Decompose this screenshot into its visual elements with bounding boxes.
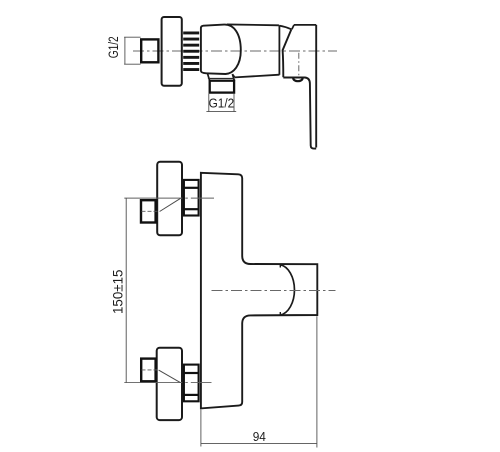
front view top wall nipple square [141, 200, 156, 222]
side view wall escutcheon flange [162, 17, 182, 86]
front view bottom eccentric diagonal [159, 370, 181, 383]
side view handle back edge (cap to lever tip) [315, 25, 317, 148]
front view top hex nut facet divider lower [183, 208, 198, 210]
side view outlet neck left side [208, 74, 210, 81]
side view G1/2 dimension witness line bottom [124, 63, 141, 65]
side view handle front slant edge [283, 29, 292, 77]
side view main centerline [133, 50, 337, 52]
side view G1/2 dimension line [124, 37, 126, 64]
front view 94 dimension left extension line [200, 410, 202, 447]
front view 150±15 dimension line [125, 198, 127, 382]
side view outlet G1/2 witness line right [233, 94, 235, 112]
front view body horizontal centerline [212, 289, 336, 291]
front view bottom inlet centerline [124, 382, 211, 384]
side view thread ladder on body inlet [183, 32, 199, 72]
side view handle vertical centerline [298, 53, 300, 78]
front view bottom wall nipple square [141, 359, 155, 382]
side view outlet G1/2 witness line left [208, 94, 210, 112]
front view bottom escutcheon flange [157, 348, 182, 420]
side view lever outline [283, 78, 316, 149]
svg-text:94: 94 [253, 429, 266, 444]
front view top hex nut facet divider upper [183, 187, 198, 189]
front view bottom hex nut facet divider lower [183, 394, 198, 396]
side view dome-to-bottom connector slant [232, 74, 234, 77]
front view top inlet centerline [124, 197, 214, 199]
front view handle bulge arc [280, 265, 294, 315]
front view bottom nipple offset centerline (dashed) [142, 369, 160, 371]
side view outlet nut G1/2 [210, 81, 234, 93]
side view wall nipple G1/2 square fitting [141, 39, 158, 62]
side view body top edge behind dome [227, 23, 279, 26]
svg-text:G1/2: G1/2 [106, 36, 121, 58]
front view bottom hex nut body [184, 365, 199, 402]
front view handle seam stub top [279, 264, 281, 267]
front view body outline [201, 173, 317, 409]
side view outlet G1/2 dimension line [206, 111, 236, 113]
svg-text:150±15: 150±15 [111, 270, 126, 315]
side view cartridge dome body [201, 25, 241, 74]
front view bottom hex nut facet divider upper [183, 372, 198, 374]
front view handle seam stub bottom [279, 312, 281, 315]
front view top escutcheon flange [157, 162, 182, 236]
side view body bottom edge [235, 75, 280, 78]
front view 94 dimension right extension line [316, 316, 318, 447]
front view top hex nut body [184, 180, 199, 216]
front view top nipple offset centerline (dashed) [142, 210, 160, 212]
svg-text:G1/2: G1/2 [209, 95, 235, 110]
side view lever pivot bump [293, 78, 302, 81]
side view handle wedge face [279, 26, 291, 30]
side view outlet neck seam [208, 77, 234, 79]
front view 94 dimension line [201, 443, 317, 445]
front view top eccentric diagonal [160, 198, 181, 211]
side view outlet neck right side [232, 74, 234, 81]
side view handle cap chamfer [292, 25, 294, 29]
side view G1/2 dimension witness line top [124, 36, 141, 38]
side view handle cap top edge [294, 24, 316, 26]
side view body right edge [278, 25, 280, 75]
